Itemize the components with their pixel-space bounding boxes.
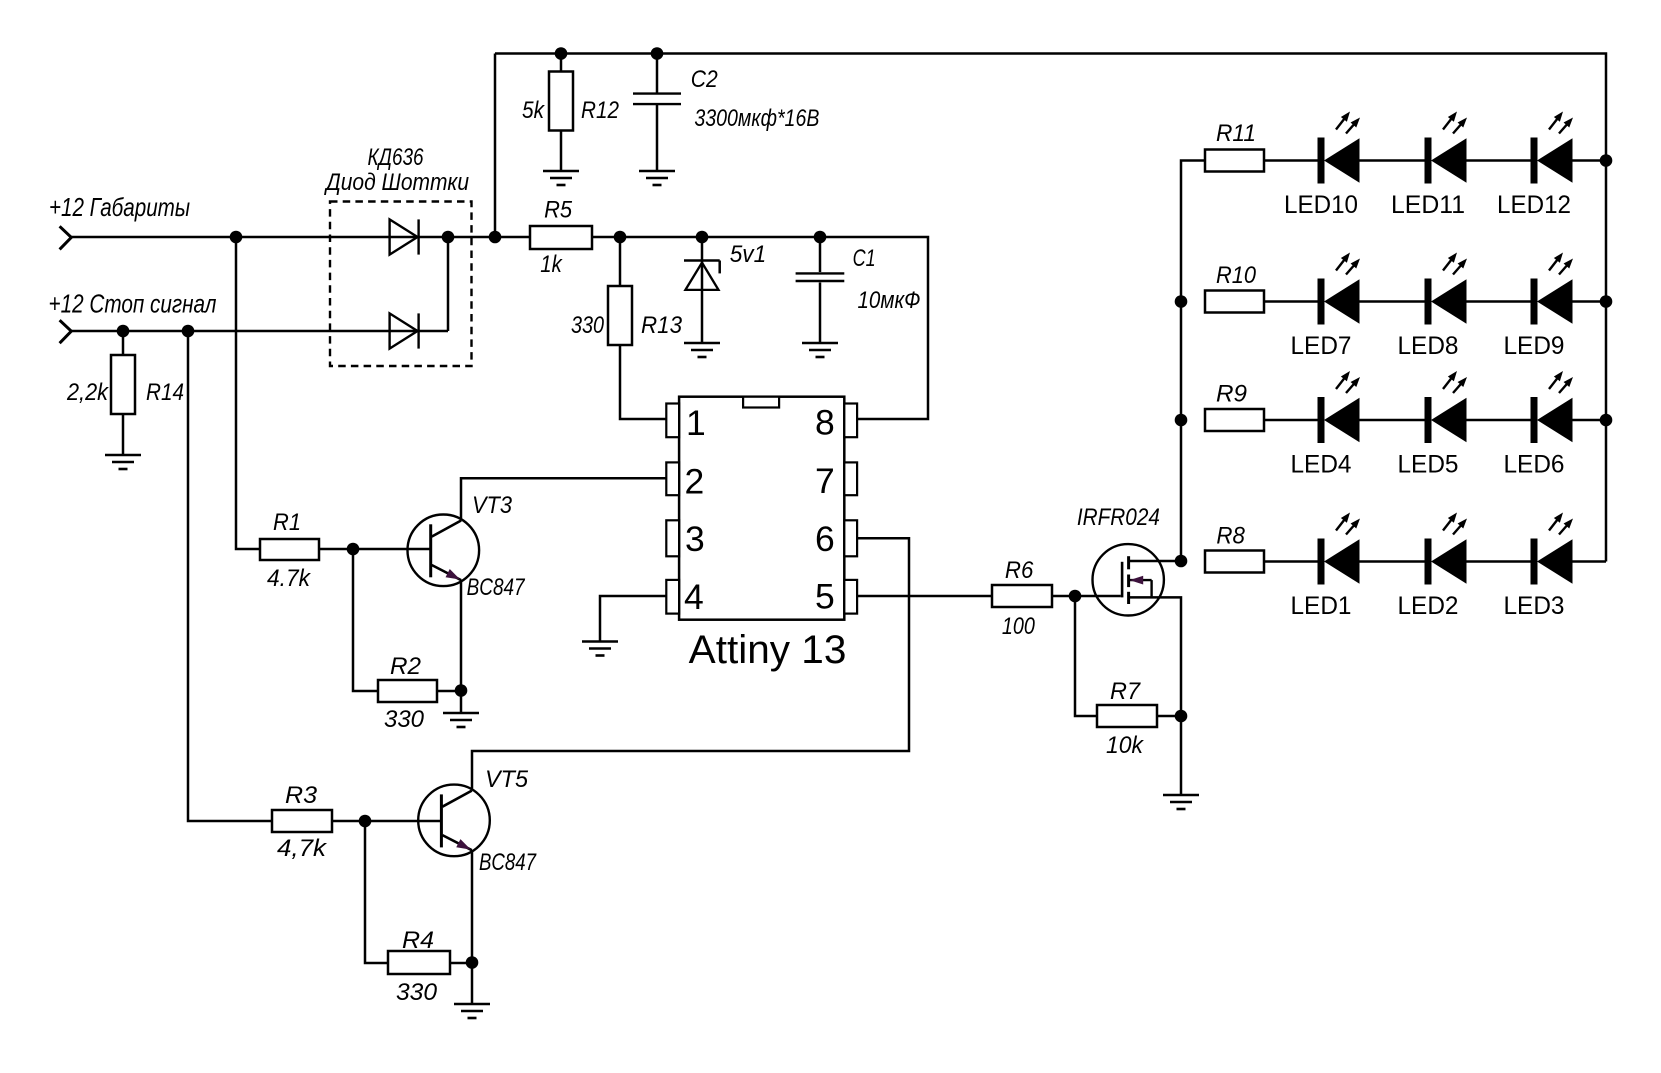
transistor VT5 (418, 785, 490, 857)
wire LED8 anode (1467, 300, 1531, 303)
LED LED6 (1531, 371, 1574, 443)
junction R1 R2 VT3 base (347, 543, 360, 556)
resistor R12 (549, 72, 573, 131)
svg-text:КД636: КД636 (368, 144, 425, 171)
svg-text:+12 Стоп сигнал: +12 Стоп сигнал (49, 289, 217, 319)
LED LED10 (1318, 112, 1361, 184)
wire R12 bottom stub to ground (560, 130, 563, 171)
label LED6 (1504, 451, 1565, 479)
wire R1 to VT3 base (319, 548, 430, 551)
wire VD1 cathode to R5 (448, 236, 530, 239)
svg-text:R5: R5 (544, 197, 573, 224)
ground MCU pin4 (582, 642, 618, 656)
label LED3 (1504, 592, 1565, 620)
wire R3 to VT5 base (332, 820, 441, 823)
svg-text:1: 1 (686, 403, 706, 443)
label LED5 (1398, 451, 1459, 479)
wire LED12 anode (1573, 159, 1607, 162)
label LED2 (1398, 592, 1459, 620)
dashed box KD636 Schottky pair (330, 202, 472, 367)
wire VT5 collector to MCU pin6 (472, 538, 909, 790)
junction R3 R4 VT5 base (359, 815, 372, 828)
svg-text:3: 3 (685, 519, 705, 559)
junction diode outputs (442, 231, 455, 244)
svg-text:R2: R2 (390, 653, 421, 680)
junction top rail R12 (555, 47, 568, 60)
IC U1 pin 1 box (666, 404, 679, 438)
wire LED5 anode (1467, 419, 1531, 422)
wire VT5 emitter down (471, 850, 474, 963)
wire R6 to MOSFET gate (1052, 595, 1121, 598)
wire R7 to source (1157, 715, 1181, 718)
wire R14 bottom stub to ground (122, 414, 125, 455)
label C2 (691, 66, 718, 93)
label R12 (581, 97, 619, 124)
IC pin number 4 (684, 577, 704, 617)
IC pin number 1 (686, 403, 706, 443)
junction right bus row R9 (1600, 414, 1613, 427)
label R11 (1216, 120, 1256, 147)
LED LED9 (1531, 253, 1574, 325)
resistor R1 (260, 539, 319, 560)
label C1 (853, 245, 876, 272)
junction gate R7 (1069, 590, 1082, 603)
svg-text:BC847: BC847 (479, 849, 537, 876)
wire R11 to LED10 (1264, 159, 1318, 162)
IC U1 pin 8 box (844, 404, 857, 438)
label LED1 (1291, 592, 1352, 620)
label R4 value 330 (396, 979, 438, 1006)
wire 12V node down to main rail (494, 54, 497, 238)
svg-text:Attiny 13: Attiny 13 (689, 628, 847, 672)
svg-text:10k: 10k (1106, 732, 1145, 759)
wire LED9 anode (1573, 300, 1607, 303)
wire C2 top stub (656, 54, 659, 94)
LED LED11 (1425, 112, 1468, 184)
label input +12 Стоп сигнал (49, 289, 217, 319)
resistor R10 (1205, 291, 1264, 313)
svg-text:330: 330 (396, 979, 438, 1006)
ground VT3 emitter (443, 713, 479, 727)
wire R13 top stub (619, 237, 622, 287)
label R4 (402, 927, 434, 954)
wire VD2 cathode up to diode junction (447, 237, 450, 331)
label LED8 (1398, 332, 1459, 360)
ground MOSFET source (1163, 795, 1199, 809)
svg-text:4.7k: 4.7k (267, 565, 312, 592)
svg-text:7: 7 (815, 461, 835, 501)
svg-text:5: 5 (815, 577, 835, 617)
junction LED bus row2 (1175, 295, 1188, 308)
label IRFR024 (1077, 504, 1160, 531)
wire R10 to LED7 (1264, 300, 1318, 303)
IC U1 notch (743, 397, 779, 408)
svg-text:R13: R13 (641, 312, 683, 339)
label LED4 (1291, 451, 1352, 479)
ground R12 (543, 171, 579, 185)
wire MCU pin5 to R6 (857, 595, 992, 598)
svg-text:R8: R8 (1216, 522, 1245, 549)
resistor R5 (530, 226, 592, 249)
svg-text:LED5: LED5 (1398, 451, 1459, 479)
wire LED anode feed bus (left) (1181, 161, 1205, 562)
wire LED4 anode (1360, 419, 1425, 422)
zener diode 5v1 (684, 261, 720, 290)
svg-text:2,2k: 2,2k (66, 379, 110, 406)
svg-text:Диод Шоттки: Диод Шоттки (323, 169, 469, 196)
IC pin number 3 (685, 519, 705, 559)
svg-text:R1: R1 (273, 509, 301, 536)
input chevron +12 Габариты (60, 226, 72, 249)
IC pin number 7 (815, 461, 835, 501)
label LED10 (1284, 191, 1358, 219)
label R7 value 10k (1106, 732, 1145, 759)
ground C2 (639, 171, 675, 185)
resistor R14 (111, 355, 135, 414)
svg-text:LED7: LED7 (1291, 332, 1352, 360)
svg-text:LED10: LED10 (1284, 191, 1358, 219)
label Attiny 13 (689, 628, 847, 672)
junction input1 to R1 branch (230, 231, 243, 244)
IC U1 Attiny 13 body (679, 397, 844, 620)
diode VD1 Schottky (top) (390, 219, 419, 254)
resistor R9 (1205, 409, 1264, 431)
resistor R7 (1097, 705, 1157, 727)
junction Vcc rail C1 (814, 231, 827, 244)
IC U1 pin 6 box (844, 520, 857, 556)
ground R14 (105, 455, 141, 469)
svg-text:2: 2 (685, 462, 705, 502)
LED LED5 (1425, 371, 1468, 443)
junction 12V vertical to main rail (489, 231, 502, 244)
input chevron +12 Стоп сигнал (60, 320, 72, 343)
ground C1 (802, 343, 838, 357)
svg-text:IRFR024: IRFR024 (1077, 504, 1160, 531)
wire MCU pin4 to ground (600, 596, 666, 642)
wire VT3 emitter ground stub (460, 690, 463, 713)
junction source R7 (1175, 710, 1188, 723)
label R5 (544, 197, 573, 224)
svg-text:VT5: VT5 (485, 766, 529, 793)
svg-text:LED12: LED12 (1497, 191, 1571, 219)
label LED7 (1291, 332, 1352, 360)
svg-text:4: 4 (684, 577, 704, 617)
capacitor C2 (633, 94, 681, 105)
wire R5 to MCU pin8 (Vcc rail) (592, 237, 928, 419)
resistor R11 (1205, 150, 1264, 172)
wire R1 branch from input1 (236, 237, 260, 549)
IC U1 pin 4 box (666, 580, 679, 614)
LED LED3 (1531, 513, 1574, 585)
label R2 (390, 653, 421, 680)
wire LED6 anode (1573, 419, 1607, 422)
wire LED3 anode (1573, 560, 1607, 563)
wire R7 left leg from gate (1075, 596, 1097, 716)
wire R9 to LED4 (1264, 419, 1318, 422)
LED LED7 (1318, 253, 1361, 325)
svg-text:5k: 5k (522, 97, 546, 124)
label C1 value 10мкФ (858, 287, 921, 314)
junction Vcc rail zener (696, 231, 709, 244)
junction right bus row R10 (1600, 295, 1613, 308)
label R14 value 2,2k (66, 379, 110, 406)
label VT5 type BC847 (479, 849, 537, 876)
capacitor C1 (796, 273, 845, 281)
wire C2 bottom stub to ground (656, 105, 659, 171)
svg-text:R14: R14 (146, 379, 184, 406)
label Диод Шоттки (323, 169, 469, 196)
svg-text:C2: C2 (691, 66, 718, 93)
svg-text:R4: R4 (402, 927, 434, 954)
label R7 (1110, 678, 1142, 705)
svg-text:3300мкф*16В: 3300мкф*16В (694, 105, 819, 132)
IC pin number 6 (815, 519, 835, 559)
LED LED4 (1318, 371, 1361, 443)
resistor R6 (992, 585, 1052, 607)
label R8 (1216, 522, 1245, 549)
wire VT3 collector to MCU pin2 (461, 478, 666, 520)
wire MOSFET drain to LED bus (1129, 560, 1181, 563)
LED LED8 (1425, 253, 1468, 325)
junction drain LED bus (1175, 555, 1188, 568)
svg-text:BC847: BC847 (467, 574, 526, 601)
svg-text:R6: R6 (1005, 557, 1034, 584)
IC U1 pin 7 box (844, 462, 857, 495)
wire R13 bottom to MCU pin1 (620, 345, 666, 419)
LED LED2 (1425, 513, 1468, 585)
junction input2 to R3 branch (182, 325, 195, 338)
IC pin number 5 (815, 577, 835, 617)
junction Vcc rail R13 (614, 231, 627, 244)
svg-text:LED4: LED4 (1291, 451, 1352, 479)
junction top rail C2 (651, 47, 664, 60)
svg-text:VT3: VT3 (472, 492, 513, 519)
junction VT5 emitter R4 (466, 956, 479, 969)
resistor R13 (608, 286, 632, 345)
label zener 5v1 (730, 241, 767, 268)
svg-text:R10: R10 (1216, 262, 1257, 289)
resistor R3 (272, 810, 332, 832)
wire C1 bottom stub to ground (819, 283, 822, 344)
svg-text:R9: R9 (1216, 381, 1247, 408)
label R1 (273, 509, 301, 536)
svg-text:R11: R11 (1216, 120, 1256, 147)
transistor VT3 (408, 515, 480, 587)
IC pin number 2 (685, 462, 705, 502)
label R14 (146, 379, 184, 406)
svg-text:LED11: LED11 (1391, 191, 1465, 219)
wire zener through (701, 237, 704, 343)
svg-text:100: 100 (1002, 613, 1036, 640)
label R9 (1216, 381, 1247, 408)
wire input1 +12 Габариты to diode VD1 (71, 236, 448, 239)
wire R3 branch from input2 (188, 331, 272, 821)
ground zener (684, 343, 720, 357)
svg-text:R12: R12 (581, 97, 619, 124)
resistor R8 (1205, 551, 1264, 573)
IC pin number 8 (815, 403, 835, 443)
svg-text:330: 330 (571, 312, 605, 339)
resistor R2 (378, 680, 437, 702)
svg-text:R3: R3 (285, 782, 318, 809)
label LED9 (1504, 332, 1565, 360)
svg-text:C1: C1 (853, 245, 876, 272)
wire R8 to LED1 (1264, 560, 1318, 563)
ground VT5 emitter (454, 1004, 490, 1018)
wire LED2 anode (1467, 560, 1531, 563)
wire VT5 emitter ground stub (471, 963, 474, 1004)
wire LED7 anode (1360, 300, 1425, 303)
label R13 (641, 312, 683, 339)
junction right bus row R11 (1600, 154, 1613, 167)
svg-text:LED2: LED2 (1398, 592, 1459, 620)
label R3 (285, 782, 318, 809)
svg-text:LED3: LED3 (1504, 592, 1565, 620)
wire VT3 emitter down (460, 580, 463, 690)
wire R4 to VT5 emitter (450, 962, 472, 965)
label R12 value 5k (522, 97, 546, 124)
svg-text:8: 8 (815, 403, 835, 443)
junction VT3 emitter R2 (455, 684, 468, 697)
label R6 value 100 (1002, 613, 1036, 640)
label R5 value 1k (540, 251, 563, 278)
svg-text:1k: 1k (540, 251, 563, 278)
LED LED12 (1531, 112, 1574, 184)
wire LED10 anode (1360, 159, 1425, 162)
wire MOSFET source down to ground (1129, 597, 1181, 795)
IC U1 pin 5 box (844, 580, 857, 614)
svg-text:LED1: LED1 (1291, 592, 1352, 620)
label R2 value 330 (384, 706, 425, 733)
label КД636 (368, 144, 425, 171)
diode VD2 Schottky (bottom) (390, 313, 419, 348)
wire C1 top stub (819, 237, 822, 272)
svg-text:LED8: LED8 (1398, 332, 1459, 360)
junction input2 to R14 (117, 325, 130, 338)
label R10 (1216, 262, 1257, 289)
wire LED1 anode (1360, 560, 1425, 563)
wire R12 top stub (560, 54, 563, 73)
label VT3 (472, 492, 513, 519)
svg-text:10мкФ: 10мкФ (858, 287, 921, 314)
svg-text:4,7k: 4,7k (277, 835, 328, 862)
label R6 (1005, 557, 1034, 584)
IC U1 pin 2 box (666, 462, 679, 495)
wire top supply rail from 12V node to LED anode bus (495, 54, 1606, 562)
label VT5 (485, 766, 529, 793)
label VT3 type BC847 (467, 574, 526, 601)
wire input2 +12 Стоп сигнал to diode VD2 (71, 330, 448, 333)
MOSFET Q1 IRFR024 (1093, 544, 1164, 615)
label LED12 (1497, 191, 1571, 219)
label R3 value 4,7k (277, 835, 328, 862)
label input +12 Габариты (49, 192, 190, 222)
wire LED11 anode (1467, 159, 1531, 162)
label C2 value 3300mkf*16V (694, 105, 819, 132)
LED LED1 (1318, 513, 1361, 585)
svg-text:+12 Габариты: +12 Габариты (49, 192, 190, 222)
wire R4 left leg (365, 821, 388, 963)
svg-text:R7: R7 (1110, 678, 1142, 705)
resistor R4 (388, 951, 450, 974)
wire R2 to VT3 emitter (437, 690, 461, 693)
svg-text:LED6: LED6 (1504, 451, 1565, 479)
svg-text:5v1: 5v1 (730, 241, 767, 268)
svg-text:6: 6 (815, 519, 835, 559)
svg-text:LED9: LED9 (1504, 332, 1565, 360)
label R13 value 330 (571, 312, 605, 339)
IC U1 pin 3 box (666, 520, 679, 556)
junction LED bus row3 (1175, 414, 1188, 427)
svg-text:330: 330 (384, 706, 425, 733)
label LED11 (1391, 191, 1465, 219)
wire R14 top stub (122, 331, 125, 355)
wire R2 left leg (353, 549, 378, 691)
label R1 value 4.7k (267, 565, 312, 592)
